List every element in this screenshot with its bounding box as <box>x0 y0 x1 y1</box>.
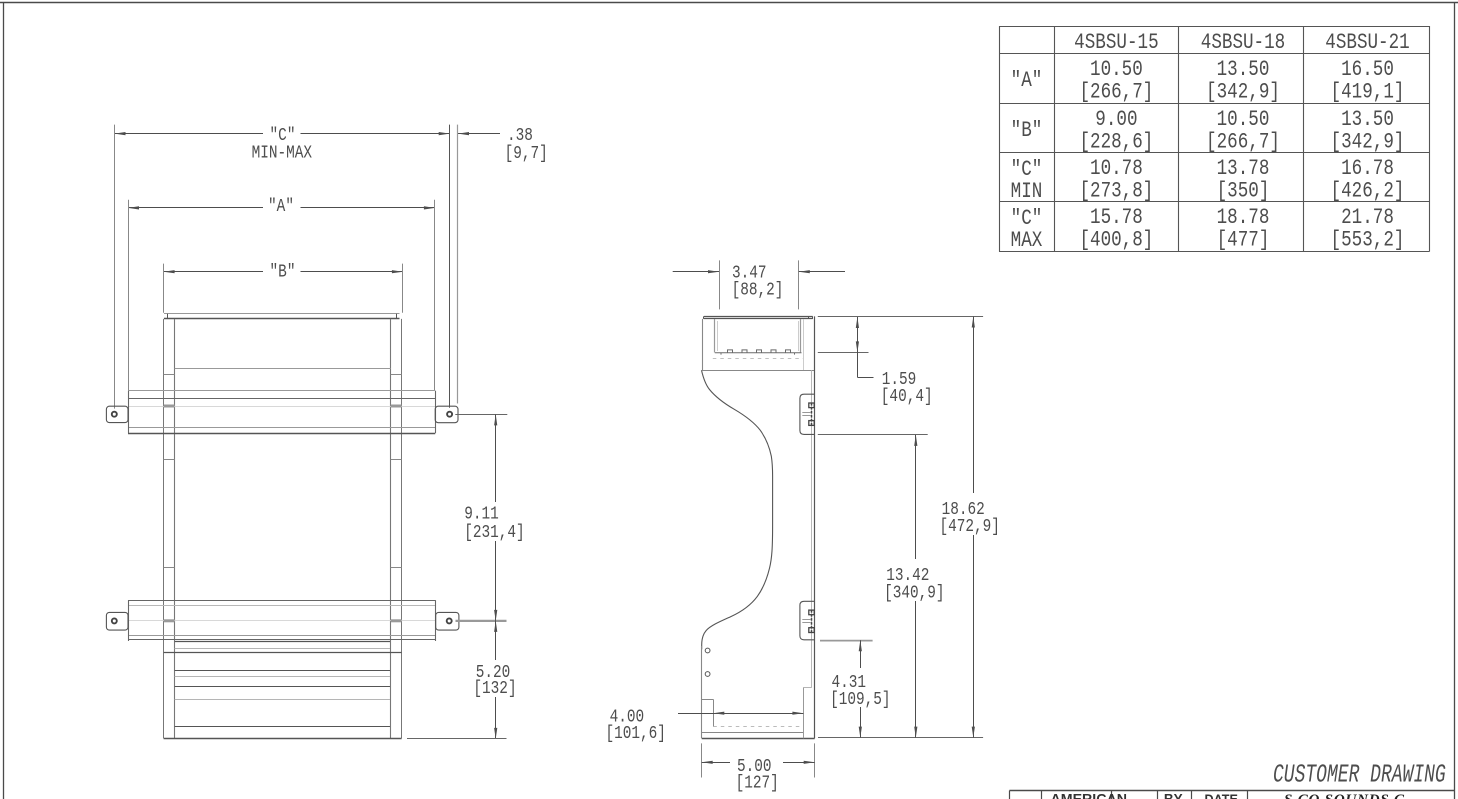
leader lower tab hole to 5.20 dim <box>456 620 507 622</box>
svg-text:[426,2]: [426,2] <box>1331 178 1405 204</box>
svg-text:[340,9]: [340,9] <box>884 583 944 604</box>
front lower mounting rail <box>128 600 436 641</box>
svg-text:4SBSU-21: 4SBSU-21 <box>1325 30 1409 56</box>
title block cell dividers <box>1010 791 1248 799</box>
svg-text:[231,4]: [231,4] <box>464 522 524 543</box>
front upper rail right tab <box>435 406 458 423</box>
svg-text:DATE: DATE <box>1205 792 1238 799</box>
front right leg <box>391 319 402 738</box>
dimension 1.59 <box>856 317 933 408</box>
side foot gusset <box>702 699 714 727</box>
svg-text:[40,4]: [40,4] <box>881 386 933 407</box>
sheet border top <box>0 2 1458 4</box>
dimension 4.31 <box>830 640 890 737</box>
front leg joint ticks mid <box>164 459 175 461</box>
svg-text:[273,8]: [273,8] <box>1079 178 1153 204</box>
svg-text:[472,9]: [472,9] <box>940 517 1000 538</box>
front upper mounting rail <box>128 391 436 434</box>
svg-text:[101,6]: [101,6] <box>606 723 666 744</box>
extension lines left <box>114 125 116 409</box>
svg-text:BY: BY <box>1164 791 1183 799</box>
CUSTOMER DRAWING text <box>1273 759 1446 789</box>
side bottom edge <box>702 738 815 740</box>
front telescoping stack <box>164 642 402 727</box>
table row "C" MIN <box>1011 156 1405 204</box>
side top section bottom line <box>702 370 814 372</box>
side hole upper <box>705 648 710 653</box>
side hole lower <box>705 672 710 677</box>
title block AMERICAN text <box>1051 791 1127 799</box>
svg-text:[266,7]: [266,7] <box>1206 129 1280 155</box>
front left leg <box>164 319 175 738</box>
side right column <box>803 687 812 738</box>
svg-text:4SBSU-18: 4SBSU-18 <box>1201 30 1285 56</box>
svg-text:[553,2]: [553,2] <box>1331 227 1405 253</box>
table row "A" <box>1011 57 1405 105</box>
title block BY text <box>1164 791 1183 799</box>
side trough channel <box>715 319 801 352</box>
side inner right line <box>811 370 813 687</box>
side upper clip <box>800 394 815 434</box>
svg-text:[228,6]: [228,6] <box>1079 129 1153 155</box>
svg-text:[419,1]: [419,1] <box>1331 79 1405 105</box>
svg-text:[266,7]: [266,7] <box>1079 79 1153 105</box>
svg-text:MAX: MAX <box>1011 228 1043 254</box>
dimension "A" <box>128 197 435 218</box>
table header row <box>1074 30 1410 56</box>
svg-text:[477]: [477] <box>1217 227 1270 253</box>
side S-curve profile <box>702 370 773 649</box>
side right edge <box>814 316 816 738</box>
svg-text:"B": "B" <box>1011 118 1043 144</box>
svg-text:MIN: MIN <box>1011 179 1043 205</box>
front top plate <box>164 314 400 319</box>
side extension lines right <box>818 317 983 738</box>
dimension 9.11 <box>464 414 524 621</box>
svg-text:[109,5]: [109,5] <box>830 689 890 710</box>
dimension 5.20 <box>473 621 516 739</box>
front leg joint ticks upper <box>164 374 175 376</box>
size table frame <box>999 26 1430 252</box>
leader upper tab hole to 9.11 dim <box>455 414 507 416</box>
front lower rail left tab <box>106 612 128 630</box>
dimension 18.62 <box>940 317 1000 738</box>
side trough hidden line <box>713 358 804 360</box>
side top plate <box>704 316 813 319</box>
front bottom edge <box>164 738 402 740</box>
title block logo text <box>1284 792 1405 799</box>
title block top line <box>1009 790 1454 792</box>
sheet border right <box>1454 2 1456 799</box>
svg-text:[342,9]: [342,9] <box>1206 79 1280 105</box>
front upper panel bottom edge <box>175 368 391 370</box>
front upper rail left tab <box>106 406 128 422</box>
side base inner line <box>702 732 804 734</box>
svg-text:"A": "A" <box>1011 68 1043 94</box>
dimension 4.00 <box>606 707 804 745</box>
front bottom extension line <box>407 738 507 740</box>
svg-text:MIN-MAX: MIN-MAX <box>252 143 312 164</box>
svg-text:4SBSU-15: 4SBSU-15 <box>1074 30 1158 56</box>
side trough bottom hooks <box>715 350 802 355</box>
dimension "C" MIN-MAX <box>115 125 450 164</box>
side inner vertical <box>803 319 805 370</box>
svg-text:[350]: [350] <box>1217 178 1270 204</box>
svg-text:S.CO SOUNDS C: S.CO SOUNDS C <box>1284 792 1405 799</box>
table row "B" <box>1011 107 1405 155</box>
side left edge bottom <box>701 646 703 738</box>
svg-text:CUSTOMER DRAWING: CUSTOMER DRAWING <box>1273 759 1446 789</box>
svg-text:[127]: [127] <box>736 773 779 794</box>
dimension "B" <box>164 262 403 283</box>
svg-text:[342,9]: [342,9] <box>1331 129 1405 155</box>
dimension 5.00 <box>702 743 815 794</box>
sheet border left <box>3 2 5 799</box>
svg-text:[132]: [132] <box>473 679 516 700</box>
extension lines right <box>402 264 404 313</box>
svg-text:"A": "A" <box>268 197 294 218</box>
dimension 3.47 <box>673 260 845 309</box>
svg-text:AMERICAN: AMERICAN <box>1051 791 1127 799</box>
svg-text:[400,8]: [400,8] <box>1079 227 1153 253</box>
side base hidden line <box>713 726 803 728</box>
front lower rail right tab <box>436 612 459 630</box>
table row "C" MAX <box>1011 205 1405 253</box>
svg-text:[9,7]: [9,7] <box>505 143 548 164</box>
title block DATE text <box>1205 792 1238 799</box>
dimension .38 leader <box>458 126 548 165</box>
side left edge top <box>702 319 704 370</box>
svg-text:"B": "B" <box>270 262 296 283</box>
side lower clip <box>800 601 815 640</box>
dimension 13.42 <box>884 435 944 738</box>
svg-text:[88,2]: [88,2] <box>732 280 784 301</box>
